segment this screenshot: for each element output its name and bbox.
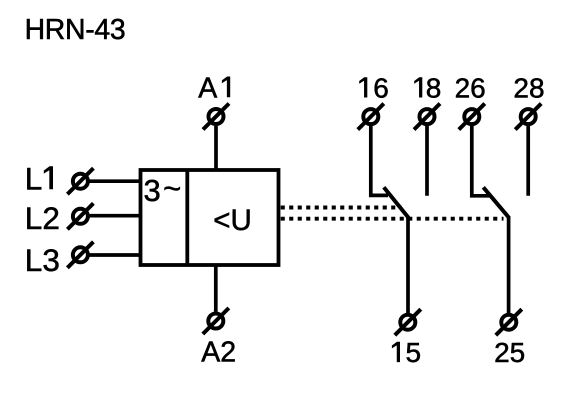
- svg-text:L2: L2: [25, 200, 60, 236]
- terminal 26: [459, 104, 485, 130]
- svg-text:L: L: [25, 160, 43, 196]
- pin label 18: [414, 77, 422, 97]
- wire L3 to box: [89, 253, 141, 257]
- pin label 15: [392, 342, 400, 362]
- contact blade 25-26 (changeover 2): [483, 187, 509, 217]
- wire L1 to box: [89, 179, 141, 183]
- wire 18 NO contact: [425, 126, 429, 196]
- wire box to A2: [214, 265, 218, 312]
- terminal 28: [515, 104, 541, 130]
- svg-text:<U: <U: [213, 204, 252, 237]
- wire 16 NC seat: [371, 126, 388, 195]
- mechanical linkage dotted line to contact 2: [281, 217, 504, 221]
- terminal A2: [203, 308, 229, 334]
- mechanical linkage dotted line to contact 1: [281, 206, 402, 210]
- relay body U1 (monitoring relay box): [141, 170, 279, 265]
- svg-text:28: 28: [513, 73, 544, 104]
- contact blade 15-16 (changeover 1): [384, 187, 409, 217]
- svg-text:25: 25: [494, 337, 525, 368]
- terminal 18: [414, 104, 440, 130]
- terminal L1: [67, 168, 93, 194]
- terminal L2: [67, 203, 93, 229]
- wire L2 to box: [89, 214, 141, 218]
- svg-text:L3: L3: [25, 242, 60, 278]
- svg-text:A2: A2: [201, 337, 236, 369]
- svg-text:5: 5: [406, 337, 422, 368]
- wire pivot to 25: [507, 216, 511, 313]
- pin label 16: [359, 77, 367, 97]
- wire 26 NC seat: [472, 126, 490, 196]
- terminal L3: [67, 242, 93, 268]
- relay internal divider: [185, 170, 189, 265]
- terminal 25: [496, 309, 522, 335]
- terminal A1: [203, 104, 229, 130]
- terminal 15: [395, 309, 421, 335]
- svg-text:HRN-43: HRN-43: [25, 14, 126, 46]
- terminal 16: [358, 104, 384, 130]
- wire A1 to box: [214, 126, 218, 170]
- svg-text:8: 8: [426, 73, 442, 104]
- svg-text:3~: 3~: [144, 171, 182, 208]
- wire 28 NO contact: [526, 126, 530, 196]
- svg-text:A: A: [198, 72, 217, 104]
- svg-text:6: 6: [373, 73, 389, 104]
- svg-text:26: 26: [455, 73, 486, 104]
- wire pivot to 15: [406, 216, 410, 313]
